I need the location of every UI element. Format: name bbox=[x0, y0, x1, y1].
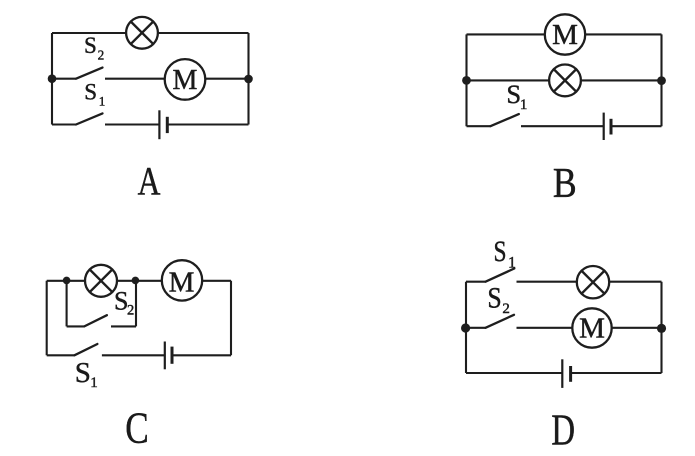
svg-text:S: S bbox=[75, 357, 91, 389]
svg-text:C: C bbox=[125, 403, 148, 453]
svg-text:2: 2 bbox=[127, 303, 134, 319]
svg-text:1: 1 bbox=[508, 255, 516, 272]
svg-text:S: S bbox=[493, 234, 506, 267]
svg-text:S: S bbox=[487, 281, 501, 314]
svg-text:D: D bbox=[551, 406, 575, 455]
svg-text:M: M bbox=[173, 65, 198, 96]
svg-text:1: 1 bbox=[99, 94, 106, 109]
svg-text:2: 2 bbox=[502, 301, 510, 317]
svg-text:1: 1 bbox=[520, 97, 528, 113]
svg-text:2: 2 bbox=[98, 48, 105, 63]
svg-text:M: M bbox=[169, 266, 195, 298]
svg-text:S: S bbox=[84, 80, 97, 105]
svg-text:M: M bbox=[579, 313, 605, 345]
svg-text:B: B bbox=[553, 160, 577, 206]
svg-text:M: M bbox=[552, 19, 578, 51]
svg-text:S: S bbox=[84, 33, 97, 58]
svg-text:A: A bbox=[138, 159, 161, 203]
svg-text:1: 1 bbox=[90, 375, 98, 391]
